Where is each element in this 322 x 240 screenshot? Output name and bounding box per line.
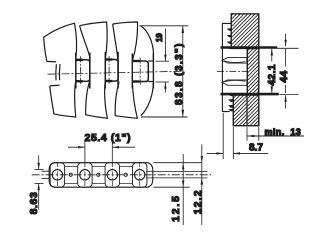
dimension 83.8 (3.3"): dimension line with arrows	[182, 26, 185, 117]
plan view: hinge circle 2	[80, 170, 90, 180]
dimension 42.1 / 44: extension lines	[277, 47, 299, 49]
cross-section: lower pin end	[222, 80, 247, 85]
dimension 12.2: dimension line with arrows	[201, 144, 203, 225]
plan view: pin end dot 3	[124, 173, 127, 176]
plan view: left pin stub	[42, 171, 50, 178]
svg-text:25.4 (1"): 25.4 (1")	[85, 132, 132, 144]
side view: chain pitch center line	[48, 71, 185, 74]
plan view: center line	[32, 174, 211, 176]
dimension min. 13: dimension line with left arrow	[247, 135, 304, 137]
svg-text:12.5: 12.5	[170, 194, 182, 222]
side view: knuckle of link 1	[76, 53, 90, 89]
cross-section: chain plate bottom surface (thick bar)	[221, 93, 279, 96]
plan view: pin end dot 1	[69, 173, 72, 176]
plan view: hinge box around circle 1	[50, 163, 64, 188]
side view: pin center dash line of link 3	[139, 58, 141, 85]
side view: plate 1 (leftmost curved link plate)	[44, 23, 77, 117]
cross-section: tab bracket outline	[222, 23, 231, 111]
dimension 42.1: dimension line with inside arrows	[271, 49, 273, 94]
plan view: bottom edge extension line	[154, 186, 190, 188]
cross-section: hinge center line	[217, 70, 247, 72]
plan view: inner edge lines of narrow sections	[64, 166, 132, 183]
svg-text:8.63: 8.63	[28, 192, 40, 215]
plan view: circle center marks	[57, 162, 139, 188]
side view: plate 4 top edge / extension line	[140, 25, 189, 27]
plan view: top edge extension line	[154, 162, 203, 164]
dimension 8.63: leader lines with outside arrows	[38, 155, 40, 209]
side view: plate 1 left notch jaws	[47, 61, 60, 86]
cross-section: chain plate top surface (thick bar)	[221, 46, 278, 49]
side view: plate 3	[113, 22, 138, 118]
dimension 19: leader with down arrow	[164, 29, 166, 93]
dimension min. 13: extension lines	[247, 127, 259, 141]
side view: plate 4 (partial, straight link)	[141, 26, 154, 116]
dimension 8.63: extension lines	[35, 169, 44, 183]
svg-text:min. 13: min. 13	[265, 127, 302, 137]
svg-text:83.8 (3.3"): 83.8 (3.3")	[174, 42, 185, 105]
dimension 8.7: dimension line with outside arrows	[207, 152, 268, 154]
plan view: chain band outline with rounded left cap	[49, 163, 148, 188]
svg-text:44: 44	[279, 70, 290, 82]
plan view: hinge circle 4	[135, 170, 145, 180]
side view: plate 2	[80, 22, 108, 118]
cross-section: upper pin end	[222, 58, 247, 64]
dimension 25.4 (1"): dimension line with outside arrows	[68, 146, 135, 148]
dimension 44: dimension line with outside arrows	[284, 34, 286, 109]
svg-text:8.7: 8.7	[249, 143, 263, 154]
dimension 25.4 (1"): extension lines	[85, 141, 112, 163]
plan view: right end cap of last link	[148, 163, 153, 188]
side view: plate 4 bottom edge / extension line	[141, 116, 188, 118]
cross-section: lower retention teeth	[228, 93, 233, 111]
svg-text:12.2: 12.2	[192, 189, 204, 214]
dimension 8.7: extension lines	[223, 113, 233, 159]
dimension 12.5: dimension line with arrows	[182, 154, 184, 225]
plan view: hinge circle 3	[107, 170, 117, 180]
cross-section: upper hatched guide block	[231, 14, 259, 49]
cross-section: right hatched column	[247, 49, 258, 94]
side view: pin center dash line of link 2	[108, 56, 110, 85]
plan view: right pin extension lines	[146, 172, 208, 178]
side view: knuckle of link 2	[105, 52, 118, 89]
side view: pin center dash line of link 1	[80, 56, 82, 85]
cross-section: lower hatched tab block	[233, 95, 258, 126]
svg-text:42.1: 42.1	[267, 64, 278, 85]
plan view: hinge circle 1	[52, 170, 62, 180]
side view: knuckle of link 3	[132, 54, 153, 89]
plan view: hinge boxes and link joint lines	[78, 163, 147, 188]
svg-text:19: 19	[155, 33, 164, 42]
cross-section: upper retention teeth	[227, 28, 232, 49]
dimension 19: extension lines	[156, 60, 170, 62]
plan view: pin end dot 2	[97, 173, 100, 176]
